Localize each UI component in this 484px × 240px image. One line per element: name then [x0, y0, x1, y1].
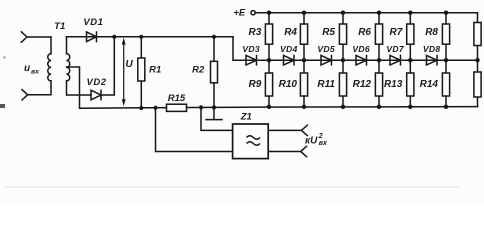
svg-text:R11: R11 [317, 79, 335, 90]
svg-text:u: u [24, 63, 30, 74]
svg-text:кU: кU [305, 136, 318, 147]
svg-text:R4: R4 [284, 27, 297, 38]
svg-text:VD1: VD1 [83, 17, 103, 28]
svg-text:R7: R7 [390, 27, 403, 38]
svg-text:VD2: VD2 [87, 77, 107, 88]
svg-text:R15: R15 [168, 93, 186, 104]
svg-text:R10: R10 [279, 79, 298, 90]
svg-text:R2: R2 [192, 65, 205, 76]
svg-text:VD6: VD6 [352, 44, 370, 54]
svg-text:R3: R3 [249, 27, 262, 38]
svg-text:VD4: VD4 [280, 44, 298, 54]
svg-text:VD5: VD5 [317, 44, 335, 54]
svg-text:R13: R13 [384, 79, 403, 90]
svg-text:2: 2 [318, 133, 323, 140]
svg-text:VD8: VD8 [423, 44, 441, 54]
svg-text:R12: R12 [353, 79, 372, 90]
svg-text:VD3: VD3 [242, 44, 260, 54]
svg-text:U: U [126, 59, 134, 70]
svg-text:T1: T1 [54, 21, 65, 32]
svg-text:R14: R14 [420, 79, 439, 90]
svg-text:R6: R6 [358, 27, 371, 38]
svg-text:R9: R9 [249, 79, 262, 90]
svg-text:R8: R8 [425, 27, 438, 38]
svg-text:+E: +E [233, 8, 246, 19]
svg-text:R1: R1 [149, 65, 161, 76]
svg-text:вх: вх [31, 69, 40, 76]
svg-text:VD7: VD7 [386, 44, 405, 54]
svg-text:R5: R5 [322, 27, 335, 38]
svg-text:Z1: Z1 [240, 112, 252, 123]
svg-text:вх: вх [319, 140, 328, 147]
